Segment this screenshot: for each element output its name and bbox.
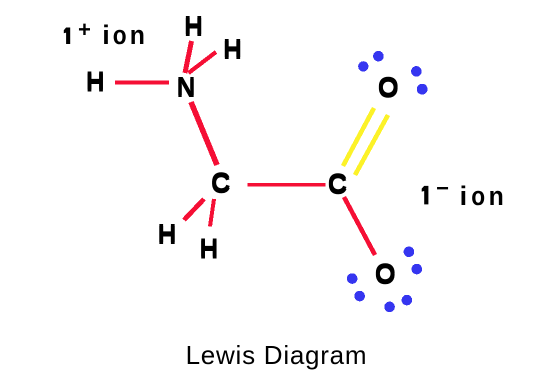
- svg-text:H: H: [184, 10, 203, 40]
- svg-text:o: o: [471, 181, 485, 211]
- svg-text:O: O: [378, 72, 399, 102]
- svg-text:+: +: [78, 19, 91, 44]
- svg-text:n: n: [130, 21, 145, 50]
- svg-text:o: o: [113, 20, 127, 50]
- svg-text:C: C: [211, 167, 231, 197]
- svg-text:i: i: [460, 181, 468, 211]
- svg-text:H: H: [86, 65, 105, 95]
- svg-text:H: H: [200, 233, 219, 263]
- svg-text:n: n: [489, 182, 504, 211]
- svg-text:H: H: [223, 33, 242, 63]
- svg-text:H: H: [158, 218, 177, 248]
- svg-text:O: O: [375, 258, 396, 288]
- svg-text:i: i: [102, 20, 110, 50]
- svg-text:C: C: [328, 168, 348, 198]
- svg-text:−: −: [436, 178, 449, 203]
- svg-text:Lewis Diagram: Lewis Diagram: [186, 340, 368, 370]
- svg-text:N: N: [177, 71, 196, 101]
